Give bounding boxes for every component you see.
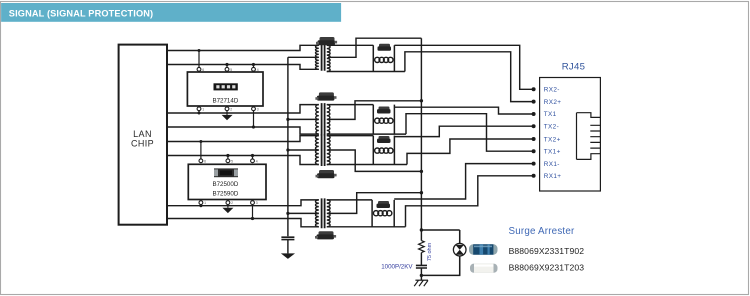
node pin 3 <box>532 112 536 116</box>
node rail T2 tap <box>420 99 423 102</box>
varistor array U1 B72714D <box>187 49 263 129</box>
node pin 7 <box>532 162 536 166</box>
svg-text:1000P/2KV: 1000P/2KV <box>381 264 413 271</box>
wire resistor to capacitor <box>420 253 422 265</box>
svg-text:5: 5 <box>231 159 233 163</box>
ground <box>281 253 295 259</box>
wire T4 secondary bottom <box>327 226 406 228</box>
common-mode choke L4 <box>372 200 394 227</box>
transformer T4 <box>288 198 330 228</box>
LAN chip <box>119 45 167 225</box>
wire capacitor to ground <box>420 268 422 280</box>
wire T2 secondary top <box>327 104 374 106</box>
wire T3 secondary tap to ground rail <box>328 150 421 171</box>
wire choke L2 to RJ45 pin TX1+ <box>406 114 534 152</box>
node termination top <box>420 228 423 231</box>
svg-text:B72500D: B72500D <box>212 181 238 188</box>
ferrite chip photo above T1 <box>316 37 337 45</box>
common-mode choke L2 <box>373 105 394 135</box>
wire T2 secondary tap to ground rail <box>328 101 421 120</box>
svg-text:3: 3 <box>257 107 259 111</box>
wire choke L3 to RJ45 pin TX2+ <box>407 139 534 165</box>
node T4 primary tap <box>286 212 289 215</box>
node rail T3 tap <box>420 170 423 173</box>
wire T4 secondary top <box>327 199 372 201</box>
choke chip photo L2 <box>377 107 391 114</box>
node rail T4 tap <box>420 191 423 194</box>
svg-text:RX2+: RX2+ <box>544 99 562 106</box>
transformer T1 <box>288 44 330 72</box>
svg-text:4: 4 <box>257 68 259 72</box>
svg-text:6: 6 <box>202 68 204 72</box>
wire primary center-tap rail <box>287 57 289 236</box>
transformer T2 <box>288 103 330 136</box>
wire T2 secondary bottom <box>327 133 406 135</box>
ground <box>222 115 233 120</box>
transformer T3 <box>288 134 330 166</box>
wire choke L1 to RJ45 pin RX2- <box>394 45 533 89</box>
node pin 1 <box>532 87 536 91</box>
svg-text:TX1+: TX1+ <box>544 149 561 156</box>
svg-text:1: 1 <box>202 107 204 111</box>
node pin 8 <box>532 174 536 178</box>
node pin 4 <box>532 124 536 128</box>
wire T1 secondary top <box>327 44 374 46</box>
ground <box>222 208 233 213</box>
wire T1 secondary tap to ground rail <box>328 38 421 57</box>
wire W2 LAN to T1 bottom <box>167 65 319 70</box>
node termination bottom <box>420 274 423 277</box>
surge arrester photo B88069X2331T902 <box>469 244 498 254</box>
node pin 5 <box>532 137 536 141</box>
wire arrester branch <box>421 230 459 275</box>
svg-text:6: 6 <box>204 159 206 163</box>
node T2 primary tap <box>286 118 289 121</box>
svg-text:RX2-: RX2- <box>544 87 560 94</box>
svg-text:RX1+: RX1+ <box>544 173 562 180</box>
capacitor C1 <box>281 237 294 253</box>
svg-text:B72714D: B72714D <box>212 97 238 104</box>
svg-text:B72590D: B72590D <box>212 191 238 198</box>
wire W8 LAN to T4 bottom <box>167 219 319 227</box>
choke chip photo L3 <box>377 136 391 143</box>
svg-text:TX2-: TX2- <box>544 124 559 131</box>
wire choke L3 to RJ45 pin TX2- <box>394 126 533 136</box>
svg-text:Surge Arrester: Surge Arrester <box>509 226 576 237</box>
svg-text:B88069X2331T902: B88069X2331T902 <box>509 246 585 256</box>
ferrite chip photo below T3 <box>316 170 337 178</box>
varistor array U2 B72500D/B72590D <box>188 140 266 220</box>
wire W4 LAN to T2 bottom <box>167 127 319 134</box>
svg-text:3: 3 <box>256 201 258 205</box>
ground chassis <box>414 280 428 286</box>
svg-text:RX1-: RX1- <box>544 161 560 168</box>
wire W3 LAN to T2 top <box>167 105 319 113</box>
choke chip photo L1 <box>378 44 392 51</box>
wire W1 LAN to T1 top <box>167 45 319 50</box>
ferrite chip photo above T2 <box>315 92 336 100</box>
svg-text:4: 4 <box>256 159 258 163</box>
wire W7 LAN to T4 top <box>167 200 319 206</box>
wire choke L2 to RJ45 pin TX1 <box>394 107 533 114</box>
ferrite chip photo below T4 <box>315 231 336 239</box>
svg-text:TX2+: TX2+ <box>544 136 561 143</box>
choke chip photo L4 <box>377 201 391 208</box>
node pin 6 <box>532 149 536 153</box>
common-mode choke L1 <box>373 45 394 71</box>
svg-text:CHIP: CHIP <box>131 139 154 149</box>
capacitor C2 1000P/2KV <box>381 264 427 271</box>
wire rail to resistor <box>420 230 422 241</box>
wire W5 LAN to T3 top <box>167 136 319 142</box>
svg-text:2: 2 <box>231 201 233 205</box>
svg-text:TX1: TX1 <box>544 111 557 118</box>
wire termination loop top <box>421 229 459 231</box>
RJ45 connector J1 <box>540 61 601 191</box>
resistor R1 75 ohm <box>419 241 433 262</box>
wire choke L4 to RJ45 pin RX1- <box>394 164 533 199</box>
svg-text:5: 5 <box>230 68 232 72</box>
wire choke L1 to RJ45 pin RX2+ <box>405 52 534 102</box>
title bar <box>1 3 341 22</box>
svg-text:SIGNAL (SIGNAL PROTECTION): SIGNAL (SIGNAL PROTECTION) <box>9 9 153 19</box>
node pin 2 <box>532 100 536 104</box>
surge arrester A1 symbol <box>453 230 466 275</box>
wire T1 secondary bottom <box>327 71 405 73</box>
wire choke L4 to RJ45 pin RX1+ <box>406 176 534 227</box>
svg-text:1: 1 <box>204 201 206 205</box>
wire T4 secondary tap to ground rail <box>328 193 421 214</box>
svg-text:2: 2 <box>230 107 232 111</box>
surge arrester photo B88069X9231T203 <box>470 264 498 273</box>
svg-text:RJ45: RJ45 <box>562 61 586 72</box>
common-mode choke L3 <box>373 136 394 165</box>
node T3 primary tap <box>286 148 289 151</box>
wire T3 secondary top <box>327 135 374 137</box>
svg-text:LAN: LAN <box>133 129 152 139</box>
wire W6 LAN to T3 bottom <box>167 156 319 165</box>
svg-text:B88069X9231T203: B88069X9231T203 <box>509 262 585 272</box>
wire T3 secondary bottom <box>327 164 407 166</box>
svg-text:75 ohm: 75 ohm <box>427 242 433 261</box>
wire secondary ground rail <box>420 38 422 230</box>
